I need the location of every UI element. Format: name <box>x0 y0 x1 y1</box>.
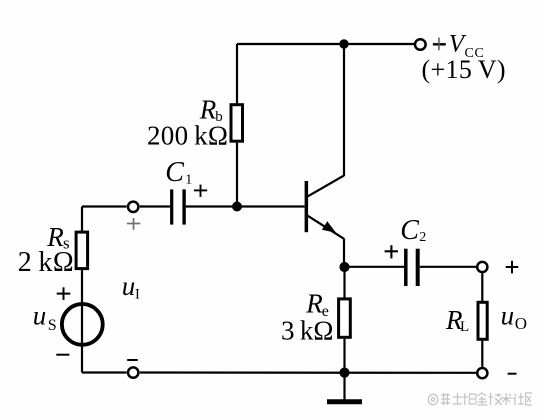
svg-text:I: I <box>135 287 140 303</box>
svg-text:S: S <box>48 317 57 334</box>
svg-text:O: O <box>515 314 527 333</box>
svg-text:u: u <box>122 271 136 301</box>
svg-text:1: 1 <box>185 173 192 188</box>
svg-text:200 kΩ: 200 kΩ <box>147 121 228 151</box>
svg-text:2 kΩ: 2 kΩ <box>18 247 74 278</box>
svg-text:u: u <box>501 300 514 330</box>
svg-text:(+15 V): (+15 V) <box>422 55 506 84</box>
svg-text:C: C <box>165 157 184 188</box>
svg-text:u: u <box>33 300 47 330</box>
svg-text:C: C <box>400 215 419 246</box>
svg-text:2: 2 <box>419 230 426 245</box>
svg-text:3 kΩ: 3 kΩ <box>281 316 333 346</box>
svg-text:L: L <box>460 319 469 335</box>
svg-text:R: R <box>305 289 323 319</box>
